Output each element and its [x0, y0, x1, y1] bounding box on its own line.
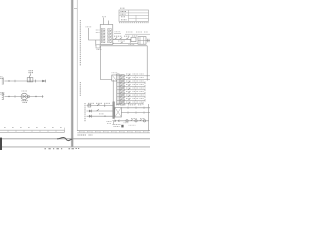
- right drop wire: [146, 46, 148, 80]
- left page bottom column numbers: [4, 127, 62, 129]
- riser tick: [102, 16, 106, 18]
- wire from bowtie: [120, 120, 149, 122]
- component box F2: [138, 37, 146, 45]
- right page left border: [76, 0, 78, 131]
- connector J2 (left, branch2): [2, 93, 3, 100]
- vertical margin text (rotated labels): [79, 20, 81, 66]
- long wire lower: [121, 112, 150, 114]
- page separator bar: [71, 0, 74, 147]
- upper branch wire: [125, 33, 150, 35]
- arrow terminal branch1: [42, 80, 45, 82]
- switch S0: [115, 38, 118, 40]
- lamp row labels: [131, 118, 145, 120]
- relay box K1b: [30, 78, 33, 82]
- lower row C wire: [87, 115, 113, 117]
- switch on row2: [121, 42, 123, 44]
- bowtie stem: [113, 119, 115, 122]
- lamp L3: [143, 120, 145, 122]
- dark node block: [121, 125, 123, 128]
- connector block X1: [100, 25, 113, 45]
- status bar top line: [0, 146, 150, 148]
- long label above: [116, 104, 142, 106]
- label J1 text: [0, 77, 3, 79]
- ladder row 9: [119, 103, 143, 105]
- pin tick branch1: [35, 80, 37, 83]
- chain wire to right edge: [146, 40, 150, 42]
- node dot branch2 left: [8, 96, 9, 97]
- connector bar right: [113, 102, 115, 119]
- node dot branch2: [35, 96, 36, 97]
- tie between rows: [129, 39, 131, 43]
- valve bowtie: [115, 120, 120, 123]
- fuse chain wire row1: [113, 38, 131, 40]
- left page : branch 2 wire: [5, 96, 44, 98]
- page bottom edge line: [0, 138, 150, 140]
- wire bus-left vertical: [112, 80, 114, 102]
- fine print under table: [119, 22, 149, 24]
- coil K1: [29, 74, 30, 78]
- pin tick row1: [14, 80, 16, 82]
- left page : branch 1 wire: [5, 80, 47, 82]
- node dot branch1: [8, 80, 9, 81]
- ladder row 7: [119, 96, 145, 98]
- fuse chain upper text: [114, 35, 138, 37]
- drop label: [129, 43, 135, 45]
- long wire under block: [100, 45, 147, 47]
- revision table: [119, 10, 149, 21]
- swoosh scribble: [57, 137, 72, 140]
- ladder row 3: [119, 82, 145, 84]
- label under bowtie: [113, 125, 121, 127]
- connector J1 (left, branch1): [2, 78, 3, 85]
- lamp L2: [135, 120, 137, 122]
- label J2 text: [0, 92, 4, 94]
- terminal tick branch2: [42, 95, 44, 98]
- status icons left: [45, 148, 63, 150]
- status icons near separator: [69, 148, 74, 150]
- left page bottom border band: [0, 129, 65, 131]
- label under block: [96, 45, 100, 48]
- switch rowB: [97, 109, 99, 111]
- long wire upper: [121, 107, 150, 109]
- diode rowC: [89, 115, 92, 118]
- small node circle branch2: [28, 96, 30, 98]
- component box F1: [131, 37, 136, 41]
- label under border: [78, 134, 93, 136]
- upper branch text: [126, 31, 148, 33]
- table cell text: [121, 12, 127, 20]
- ladder row 4: [119, 85, 145, 87]
- switch: [140, 119, 142, 121]
- right vertical bus: [148, 104, 150, 131]
- junction box to bus: [112, 75, 117, 81]
- switch: [131, 119, 133, 121]
- node dot rowC: [104, 116, 105, 117]
- dark left corner: [0, 138, 2, 150]
- relay box K1a: [27, 78, 30, 82]
- ladder row 1: [119, 75, 150, 77]
- wire top label: [86, 26, 92, 28]
- motor M1 circle: [21, 93, 28, 100]
- lower group row A text: [88, 102, 110, 104]
- pin tick row2: [14, 95, 16, 97]
- lamp L1: [126, 120, 128, 122]
- label K1 text: [29, 71, 34, 73]
- sensor box rowA: [88, 104, 91, 107]
- tick text in band: [79, 131, 146, 133]
- switch S2: [126, 38, 129, 40]
- wire L-shape into block: [89, 28, 101, 40]
- tick rowA: [104, 104, 106, 107]
- component box with X: [115, 107, 122, 117]
- table top label: [120, 7, 125, 9]
- lower row A wire: [87, 105, 113, 107]
- block left labels: [96, 30, 100, 33]
- ladder row 6: [119, 92, 145, 94]
- switch rowA: [97, 104, 99, 106]
- vertical feed wire: [101, 46, 112, 80]
- ladder row 8: [119, 99, 145, 101]
- lower row B wire: [87, 110, 113, 112]
- diode rowB: [89, 110, 92, 113]
- bus bar: [117, 74, 119, 105]
- riser wires above connector block: [104, 18, 109, 25]
- ladder row 2: [119, 78, 150, 80]
- left page corner tick: [64, 128, 66, 133]
- status icons right of separator: [76, 148, 80, 150]
- fuse chain wire row2: [113, 42, 138, 44]
- label above M1: [22, 90, 28, 92]
- right page bottom border band: [77, 130, 150, 132]
- junction box label: [112, 72, 118, 74]
- label M1 text below: [22, 101, 29, 103]
- border tick top: [74, 7, 77, 9]
- chain dots: [112, 39, 113, 40]
- ladder row 5: [119, 89, 145, 91]
- mid chain text: [118, 40, 125, 42]
- chain end symbols: [148, 39, 150, 42]
- switch S1: [120, 38, 123, 40]
